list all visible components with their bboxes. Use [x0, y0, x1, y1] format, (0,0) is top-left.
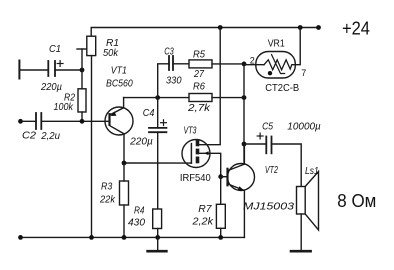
resistor R2 body — [78, 89, 86, 112]
svg-text:R6: R6 — [193, 81, 205, 93]
wire R3 to ground rail — [123, 205, 125, 237]
svg-text:10000µ: 10000µ — [287, 121, 321, 133]
wire node D to node F vertical — [243, 64, 245, 164]
svg-text:CT2C-B: CT2C-B — [265, 82, 299, 94]
VT3 channel segments — [196, 140, 200, 164]
wire VR1 pin 7 to +24 rail — [296, 28, 301, 65]
svg-text:R4: R4 — [134, 205, 145, 217]
VT3 drain lead to +24 rail — [198, 28, 221, 145]
svg-text:+24: +24 — [342, 19, 370, 39]
wire node H to R7 — [220, 177, 222, 205]
VT1 emitter with arrow — [110, 98, 124, 115]
node D junction R5/VR1/vertical — [242, 62, 247, 67]
svg-text:C3: C3 — [164, 45, 174, 57]
wire C1 to node A — [55, 69, 82, 71]
speaker Ls1 — [297, 187, 306, 215]
wire R7 to ground rail — [220, 228, 222, 237]
svg-text:2,2k: 2,2k — [191, 216, 213, 228]
svg-text:R7: R7 — [198, 203, 212, 215]
wire node C down to C4 — [157, 98, 159, 128]
svg-text:VT1: VT1 — [111, 65, 127, 77]
svg-text:R3: R3 — [101, 180, 112, 192]
svg-text:220µ: 220µ — [40, 81, 62, 93]
VR1 inner dot — [268, 71, 272, 75]
resistor R7 body — [216, 204, 225, 228]
ground symbol center — [157, 237, 159, 250]
transistor VT2 circle — [228, 164, 255, 191]
wire R5 to node D — [212, 63, 244, 65]
thermistor VR1 outline — [256, 52, 295, 79]
VT2 emitter arrow — [238, 186, 244, 190]
VT1 base bar — [108, 113, 110, 126]
VR1 diagonal strike — [272, 55, 285, 74]
wire wiper to node A — [81, 49, 83, 70]
wire R1 bottom lead to ground rail — [91, 56, 93, 238]
transistor VT3 circle — [182, 140, 210, 168]
wire R2 to base node — [81, 112, 83, 121]
C1 plus sign — [57, 61, 63, 67]
svg-text:2,7k: 2,7k — [187, 102, 211, 114]
capacitor C5 — [266, 137, 271, 154]
node input2 dot — [18, 119, 23, 124]
svg-text:BC560: BC560 — [106, 78, 133, 90]
svg-text:IRF540: IRF540 — [180, 172, 211, 184]
svg-text:430: 430 — [128, 217, 145, 229]
svg-text:Ls1: Ls1 — [305, 165, 319, 177]
node rail left terminal dot — [18, 235, 23, 240]
capacitor C1 — [48, 61, 55, 76]
input terminal bar — [18, 61, 20, 79]
svg-text:8 Ом: 8 Ом — [337, 191, 376, 211]
node C junction emitter/C3/C4 — [155, 95, 160, 100]
resistor R4 body — [153, 209, 162, 229]
wire input to C1 — [19, 69, 48, 71]
resistor R5 body — [189, 60, 212, 68]
node junction VT3 drain on +24 rail — [218, 25, 223, 30]
VT2 emitter — [228, 184, 244, 237]
svg-text:MJ15003: MJ15003 — [243, 201, 294, 213]
svg-text:27: 27 — [193, 68, 205, 80]
svg-text:C4: C4 — [143, 107, 155, 119]
wire node H to VT2 base — [221, 176, 228, 178]
wire VT1 collector to VT3 gate — [124, 162, 191, 164]
node rail R3 junction — [122, 235, 127, 240]
node rail R4 junction — [155, 235, 160, 240]
VT3 source arrow — [204, 151, 209, 155]
wire speaker to ground — [300, 214, 302, 250]
node junction VR1 pin7 on +24 rail — [298, 25, 303, 30]
svg-text:220µ: 220µ — [129, 135, 153, 147]
svg-text:VT2: VT2 — [265, 164, 278, 176]
svg-text:100k: 100k — [54, 101, 74, 113]
svg-text:C2: C2 — [22, 130, 36, 142]
C5 plus sign — [257, 133, 263, 139]
svg-text:2: 2 — [250, 56, 255, 66]
node E junction R6/vertical — [242, 95, 247, 100]
svg-text:C5: C5 — [262, 121, 273, 133]
wire C4 to R4 — [157, 132, 159, 209]
svg-text:R5: R5 — [193, 49, 205, 61]
wire C2 to VT1 base — [41, 120, 109, 122]
wire node G to R3 — [123, 163, 125, 181]
wire node A to R2 — [81, 70, 83, 89]
node F junction C5/VT2 collector — [242, 142, 247, 147]
svg-text:330: 330 — [166, 75, 182, 87]
ground rail — [21, 236, 245, 238]
wire node F to C5 — [244, 143, 266, 145]
node rail R7 junction — [218, 235, 223, 240]
svg-text:50k: 50k — [103, 47, 119, 59]
wire VT1 emitter rail — [124, 97, 189, 99]
svg-text:VT3: VT3 — [184, 124, 197, 136]
wire top +24 rail — [91, 28, 318, 37]
node G junction collector/R3 — [122, 161, 127, 166]
svg-text:C1: C1 — [49, 43, 61, 55]
wire C3 to R5 — [173, 63, 189, 65]
R1 wiper tap — [77, 48, 87, 50]
VR1 zigzag — [264, 60, 296, 70]
wire input2 to C2 — [21, 120, 37, 122]
VT2 base bar — [226, 168, 228, 187]
ground symbol speaker — [291, 250, 311, 253]
transistor VT1 circle — [105, 107, 133, 135]
wire R6 to node E — [212, 97, 244, 99]
svg-text:7: 7 — [301, 68, 306, 78]
svg-text:2,2u: 2,2u — [40, 130, 60, 142]
node H junction source/R7/VT2 base — [218, 174, 223, 179]
svg-text:22k: 22k — [99, 194, 116, 206]
wire C5 to speaker — [272, 144, 302, 187]
capacitor C2 — [36, 113, 41, 129]
VT3 gate bar — [190, 144, 192, 164]
node rail R1 junction — [89, 235, 94, 240]
node A junction C1/R2/wiper — [80, 68, 85, 73]
wire R4 to ground rail — [157, 229, 159, 238]
resistor R1 body — [87, 36, 96, 55]
node +24 terminal dot — [316, 25, 321, 30]
C4 plus sign — [161, 120, 167, 126]
VR1 left lead pin 2 — [244, 64, 264, 66]
node B junction C2/R2/base — [80, 119, 85, 124]
VT1 collector — [110, 126, 124, 163]
resistor R6 body — [189, 94, 212, 102]
capacitor C3 — [169, 56, 173, 70]
resistor R3 body — [120, 181, 129, 205]
svg-text:VR1: VR1 — [268, 38, 285, 50]
capacitor C4 — [149, 128, 166, 132]
wire node C up to C3 — [158, 64, 169, 98]
VT2 collector — [228, 144, 244, 171]
VT3 source lead — [198, 153, 221, 176]
